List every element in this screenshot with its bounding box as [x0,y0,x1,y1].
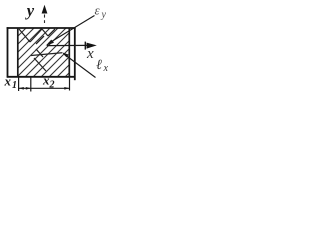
svg-text:ε: ε [95,3,101,18]
svg-text:y: y [101,10,107,21]
svg-text:1: 1 [12,80,17,91]
svg-text:2: 2 [49,80,55,91]
svg-text:ℓ: ℓ [96,58,102,73]
svg-text:x: x [86,46,94,62]
svg-text:y: y [25,1,35,20]
svg-text:x: x [4,74,12,89]
svg-text:x: x [103,63,109,74]
